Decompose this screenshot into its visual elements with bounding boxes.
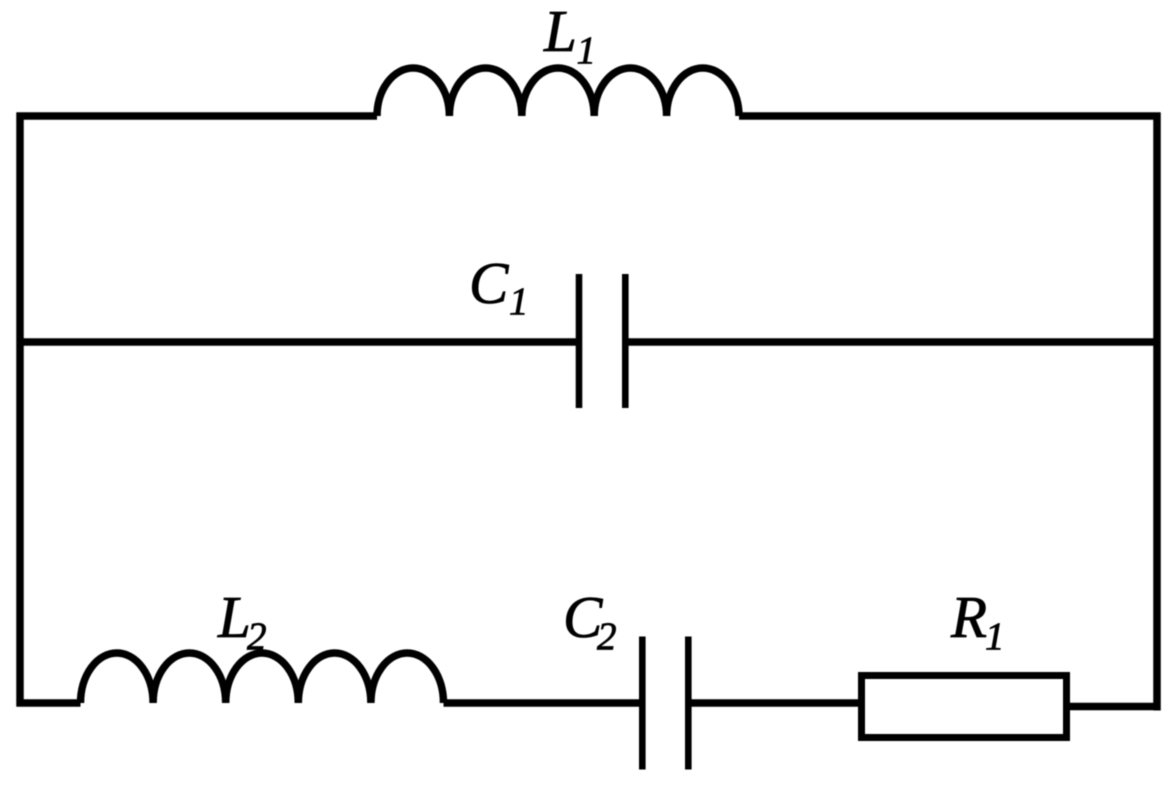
svg-text:L: L <box>217 584 251 650</box>
resistor R1 <box>862 676 1067 738</box>
wire bottom-right segment <box>1070 703 1161 711</box>
inductor L2 <box>81 653 444 703</box>
wire bottom-left stub <box>17 699 81 707</box>
label L2 <box>217 584 267 658</box>
svg-text:2: 2 <box>247 615 267 658</box>
svg-text:L: L <box>543 0 577 64</box>
wire middle-left segment <box>17 338 577 346</box>
label R1 <box>950 584 1005 658</box>
wire right vertical <box>1153 113 1161 711</box>
wire bottom between L2 and C2 <box>444 699 640 707</box>
svg-text:2: 2 <box>597 615 617 658</box>
wire middle-right segment <box>629 338 1161 346</box>
wire top-left segment <box>17 112 378 120</box>
capacitor C1 <box>579 274 625 408</box>
svg-text:C: C <box>469 250 509 316</box>
capacitor C2 <box>642 637 688 770</box>
inductor L1 <box>377 68 739 116</box>
wire left vertical <box>16 113 24 707</box>
label C1 <box>469 250 529 323</box>
svg-text:1: 1 <box>985 615 1005 658</box>
svg-text:1: 1 <box>509 280 529 323</box>
label C2 <box>563 584 617 658</box>
svg-text:1: 1 <box>577 29 597 72</box>
wire bottom between C2 and R1 <box>692 699 859 707</box>
label L1 <box>543 0 596 72</box>
wire top-right segment <box>739 112 1161 120</box>
svg-text:R: R <box>950 584 987 650</box>
